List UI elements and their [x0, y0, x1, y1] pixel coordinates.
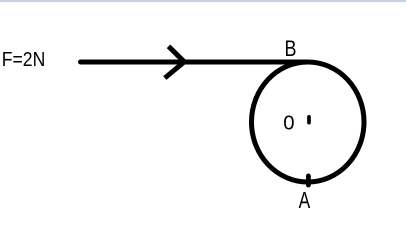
svg-text:0: 0: [283, 113, 294, 135]
arrowhead: [165, 46, 185, 78]
svg-text:A: A: [299, 187, 311, 213]
node A tick mark: [306, 176, 311, 185]
circle (disc): [252, 62, 365, 182]
center O dot: [307, 117, 311, 123]
svg-text:F=2N: F=2N: [2, 48, 46, 71]
top toolbar strip: [0, 0, 406, 3]
svg-text:B: B: [285, 36, 297, 61]
wire: force arrow shaft: [81, 60, 306, 65]
